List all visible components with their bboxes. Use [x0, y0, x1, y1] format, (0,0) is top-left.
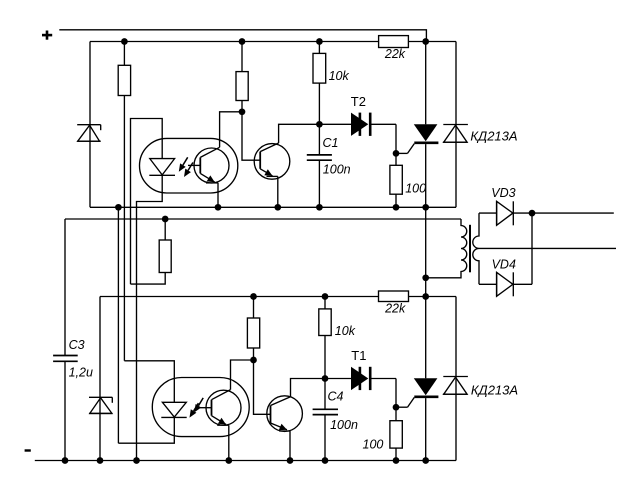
node junction C3 minus rail	[62, 457, 69, 464]
wire top box bottom rail	[90, 206, 456, 208]
node junction Q1 emitter	[274, 204, 281, 211]
node junction zener2 minus rail	[97, 457, 104, 464]
node junction C4 top	[322, 375, 329, 382]
wire bottom box left edge	[99, 297, 101, 461]
wire + supply rail	[59, 30, 426, 42]
node junction thyristor cathode	[422, 204, 429, 211]
minus terminal label	[25, 449, 31, 451]
node junction 10k bottom top	[322, 293, 329, 300]
node junction 100 bottom rail	[393, 457, 400, 464]
transistor Q1	[254, 143, 290, 179]
wire Q1 base	[242, 112, 260, 160]
label VD3	[491, 186, 515, 200]
label 10k bottom	[335, 324, 356, 338]
capacitor C4	[313, 379, 338, 461]
wire top box right edge	[455, 42, 457, 208]
diode VD4	[479, 272, 532, 296]
diode VD3	[479, 201, 532, 225]
label C1 value	[323, 163, 351, 177]
svg-text:КД213А: КД213А	[470, 128, 517, 143]
resistor R3	[159, 219, 171, 273]
node junction R1 top	[121, 38, 128, 45]
wire crosslink A	[117, 207, 119, 443]
wire T1 to gate node	[395, 379, 397, 408]
node junction gate	[393, 150, 400, 157]
label VD4	[492, 258, 516, 272]
svg-text:VD4: VD4	[492, 258, 516, 272]
wire U2 LED anode feed	[124, 361, 174, 403]
wire minus rail	[35, 460, 456, 462]
wire top box top rail	[90, 41, 456, 43]
wire R3 to top LED anode	[131, 273, 166, 285]
resistor 100 top	[390, 153, 402, 207]
wire VD4 cathode up	[531, 213, 533, 284]
wire 10k to C1 node	[318, 83, 320, 124]
wire R2 bottom	[241, 101, 243, 112]
node junction R4 top	[250, 293, 257, 300]
zener diode VD1	[77, 125, 101, 142]
label 22k top	[384, 47, 406, 61]
label KD213A top	[470, 128, 517, 143]
wire U2 LED cathode	[118, 417, 174, 443]
resistor 22k bottom	[379, 291, 409, 302]
capacitor C1	[307, 124, 332, 207]
node junction +rail/thyristor column	[422, 38, 429, 45]
wire top output	[532, 212, 614, 214]
light arrows U1	[179, 157, 193, 177]
label T1	[351, 348, 366, 363]
wire U1 LED cathode	[137, 175, 163, 460]
diode T1	[325, 367, 396, 390]
svg-text:VD3: VD3	[491, 186, 515, 200]
node junction 100 bottom	[393, 204, 400, 211]
wire top box left edge	[89, 42, 91, 208]
label T2	[351, 94, 366, 109]
transformer T core	[469, 225, 471, 272]
svg-text:T1: T1	[351, 348, 366, 363]
wire R1 to bottom LED feed	[123, 96, 125, 361]
node junction thyristor2 cathode rail	[422, 457, 429, 464]
node junction LED cathode / minus rail	[133, 457, 140, 464]
node junction gate 2	[393, 404, 400, 411]
label 10k top	[329, 69, 350, 83]
node junction R2/collector	[239, 108, 246, 115]
wire U1 LED anode	[131, 119, 163, 285]
wire primary top line	[65, 218, 461, 220]
plus terminal label	[42, 31, 52, 40]
label C3	[69, 338, 85, 352]
node junction primary bottom	[422, 274, 429, 281]
node junction C4 bottom	[322, 457, 329, 464]
wire bottom box top rail	[100, 296, 456, 298]
transformer T secondary winding	[473, 213, 479, 284]
node junction C1 top	[316, 121, 323, 128]
label 100 top	[405, 181, 426, 195]
node junction 10k top	[316, 38, 323, 45]
label C4	[328, 389, 344, 403]
light arrows U2	[190, 398, 204, 418]
svg-text:C4: C4	[328, 389, 344, 403]
svg-text:T2: T2	[351, 94, 366, 109]
svg-text:22k: 22k	[384, 302, 406, 316]
node junction Q2 emitter	[287, 457, 294, 464]
wire U2 emitter	[228, 425, 230, 460]
phototransistor U2	[196, 390, 241, 426]
wire thyristor column mid	[425, 207, 427, 296]
phototransistor U1	[188, 147, 229, 183]
node junction U2 emitter	[225, 457, 232, 464]
diode VD1 KD213A top	[443, 125, 468, 143]
svg-text:100: 100	[405, 181, 426, 195]
wire thyristor VS2 gate	[396, 397, 414, 407]
resistor 10k top	[313, 42, 326, 84]
wire secondary centre tap output	[479, 247, 616, 249]
resistor 10k bottom	[319, 297, 331, 336]
transformer T primary winding	[426, 219, 467, 278]
wire Q1 collector	[279, 124, 320, 143]
svg-text:100n: 100n	[323, 163, 351, 177]
transistor Q2	[267, 396, 303, 432]
diode T2	[319, 113, 396, 136]
wire Q1 emitter	[277, 176, 279, 207]
optocoupler U1 body	[140, 138, 238, 193]
node junction R2 top	[239, 38, 246, 45]
node junction bottom rail / crosslink	[115, 204, 122, 211]
svg-text:10k: 10k	[335, 324, 356, 338]
svg-text:100n: 100n	[330, 418, 358, 432]
label 22k bottom	[384, 302, 406, 316]
diode VD2 KD213A bottom	[443, 377, 468, 395]
node junction rectifier output	[529, 210, 536, 217]
wire Q2 emitter	[289, 431, 291, 461]
wire U2 collector	[231, 360, 254, 390]
node junction bottom box feed	[422, 293, 429, 300]
svg-text:22k: 22k	[384, 47, 406, 61]
svg-text:КД213А: КД213А	[471, 382, 518, 397]
wire T2 to gate node	[395, 124, 397, 153]
wire Q2 collector	[291, 379, 326, 397]
label C1	[323, 136, 339, 150]
optocoupler U2 body	[152, 378, 249, 437]
thyristor VS1	[414, 42, 439, 208]
node junction R4 bottom	[250, 357, 257, 364]
wire bottom box right edge	[455, 297, 457, 461]
LED U2	[161, 402, 186, 417]
label KD213A bottom	[471, 382, 518, 397]
label C4 value	[330, 418, 358, 432]
svg-text:100: 100	[363, 437, 384, 451]
node junction C1 bottom	[316, 204, 323, 211]
wire Q2 base	[254, 360, 271, 414]
resistor R2	[236, 42, 248, 101]
resistor 100 bottom	[390, 407, 402, 460]
svg-text:1,2u: 1,2u	[69, 366, 93, 380]
wire U1 collector	[220, 112, 242, 148]
wire U1 emitter	[217, 183, 219, 207]
node junction U1 emitter	[215, 204, 222, 211]
resistor R1	[118, 42, 130, 96]
node junction R3 top	[162, 216, 169, 223]
wire 10k bottom to C4 node	[324, 336, 326, 379]
resistor R4	[247, 297, 259, 361]
svg-text:C3: C3	[69, 338, 85, 352]
svg-text:C1: C1	[323, 136, 339, 150]
label 100 bottom	[363, 437, 384, 451]
thyristor VS2	[414, 297, 439, 461]
label C3 value	[69, 366, 93, 380]
LED U1 top	[149, 159, 175, 176]
resistor 22k top	[379, 36, 409, 48]
capacitor C3	[53, 219, 78, 461]
svg-text:10k: 10k	[329, 69, 350, 83]
zener diode VD2	[89, 397, 112, 413]
wire thyristor VS1 gate	[396, 144, 414, 154]
